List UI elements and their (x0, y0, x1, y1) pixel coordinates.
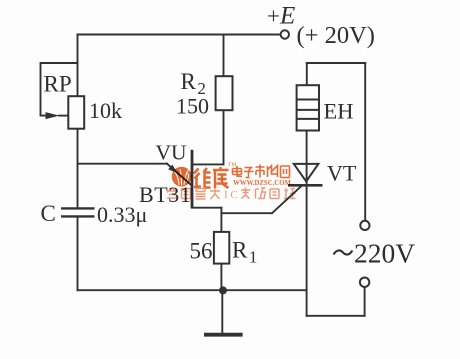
label ~220V tilde (334, 250, 353, 254)
svg-text:220V: 220V (354, 238, 415, 269)
wire RP top-end loop (pot top terminal to wiper) (41, 63, 78, 116)
svg-text:(+ 20V): (+ 20V) (297, 22, 375, 49)
wire R1 bottom to bottom rail (220, 264, 222, 291)
node junction dot on bottom rail at ground (219, 286, 227, 294)
wire UJT emitter horizontal from left rail (78, 163, 168, 165)
svg-text:150: 150 (176, 94, 209, 119)
wire thyristor gate horizontal (221, 212, 272, 214)
svg-text:0.33μ: 0.33μ (97, 202, 147, 227)
svg-text:I C: I C (224, 189, 238, 201)
wire left rail middle (RP body to capacitor C) (77, 129, 79, 208)
svg-text:EH: EH (324, 99, 354, 124)
wire EH branch drop to heater (306, 63, 308, 85)
wire EH branch top (307, 62, 365, 64)
wire ground drop (221, 290, 223, 334)
potentiometer RP wiper arrow (46, 112, 60, 119)
wire thyristor gate diagonal (272, 186, 302, 214)
svg-text:10k: 10k (89, 98, 122, 123)
wire top rail from left branch to +E terminal (78, 34, 281, 36)
wire bottom of AC loop (307, 315, 365, 317)
wire UJT emitter diagonal (167, 164, 191, 185)
wire thyristor anode-cathode vertical (heater to AC loop bottom) (306, 131, 308, 316)
transistor VU unijunction base bar (191, 150, 194, 209)
resistor R2 body (216, 76, 233, 110)
svg-text:56: 56 (190, 239, 213, 264)
wire UJT base-one down to R1 (220, 208, 222, 232)
svg-text:C: C (41, 201, 56, 226)
wire left rail upper (top rail to RP body) (77, 35, 79, 97)
watermark logo circle (172, 167, 192, 187)
wire UJT base-one horizontal (192, 207, 221, 209)
svg-text:+E: +E (267, 3, 295, 30)
wire right rail to upper AC terminal (364, 63, 366, 221)
wire R2 branch drop from top rail (223, 35, 225, 77)
watermark slogan characters (stylized) (167, 188, 296, 202)
terminal AC upper open circle (360, 221, 369, 230)
wire UJT base-two horizontal (192, 163, 224, 165)
svg-text:VT: VT (327, 161, 357, 186)
wire R2 bottom to UJT base-two (223, 110, 225, 164)
thyristor VT anode triangle (294, 164, 319, 182)
svg-text:TM: TM (228, 162, 236, 168)
watermark site name characters (stylized) (233, 165, 290, 178)
transistor VU emitter arrowhead (168, 165, 177, 174)
heater EH body (297, 85, 319, 130)
terminal +E open circle (281, 30, 289, 38)
wire left rail lower (capacitor C to bottom rail) (77, 217, 79, 290)
thyristor VT cathode bar (288, 184, 323, 187)
capacitor C plates (61, 208, 95, 216)
terminal AC lower open circle (360, 278, 369, 287)
svg-text:RP: RP (44, 72, 72, 97)
resistor R1 body (214, 232, 229, 264)
ground bar (204, 333, 243, 337)
potentiometer RP body (68, 96, 84, 129)
wire bottom rail (78, 289, 307, 291)
svg-text:WWW.DZSC.COM: WWW.DZSC.COM (233, 180, 291, 187)
watermark brand characters (stylized) (194, 167, 229, 188)
svg-text:VU: VU (156, 141, 188, 165)
wire lower AC terminal drop (364, 287, 366, 316)
